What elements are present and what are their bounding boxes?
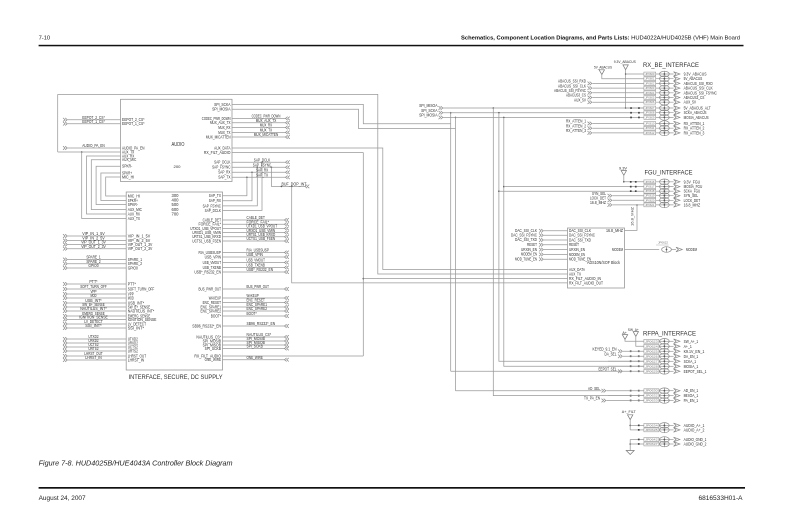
connector JP0627 SCKA_1 bbox=[644, 359, 697, 365]
ground symbol bbox=[626, 440, 644, 455]
input net label URXD2 bbox=[63, 338, 126, 345]
wire MIC_HI audio to main bbox=[106, 177, 127, 196]
connector JP0620 LOCK_DET bbox=[644, 198, 701, 204]
page header left: 7-10 bbox=[39, 36, 51, 42]
input net label PTT* bbox=[63, 279, 126, 286]
svg-text:MUX_MICATTEN: MUX_MICATTEN bbox=[206, 134, 231, 139]
input net label RX_ATTEN_3 bbox=[566, 128, 644, 135]
resistor pairs RFPA rows bbox=[630, 350, 640, 372]
svg-text:AUX_MIC: AUX_MIC bbox=[122, 157, 136, 162]
wire MODEM from ADSIC to connector bbox=[625, 249, 660, 251]
output net label SPI_SCKB bbox=[223, 344, 289, 351]
connector JP0601 5V_ABACUS bbox=[644, 76, 703, 82]
svg-text:SAP_DCLK: SAP_DCLK bbox=[205, 208, 222, 213]
svg-text:BUS_PWR_OUT: BUS_PWR_OUT bbox=[199, 286, 222, 291]
svg-text:TX_PA_EN: TX_PA_EN bbox=[584, 396, 600, 401]
output net label MUX_RX bbox=[232, 123, 290, 130]
input net label LV_DETECT bbox=[63, 319, 126, 326]
input net label LOCK_DET bbox=[590, 196, 644, 203]
connector JP0633 PA_EN_1 bbox=[644, 398, 699, 404]
svg-text:JP0619: JP0619 bbox=[645, 194, 655, 198]
connector JP0625 K9.1V_EN_1 bbox=[644, 349, 705, 355]
output net label RIA_USBSUSP bbox=[223, 248, 289, 255]
svg-text:7-10: 7-10 bbox=[39, 36, 51, 42]
main block internal bus numbers 300-700 bbox=[172, 193, 180, 217]
output net label ENC_RESET bbox=[223, 298, 289, 305]
wire 16.8_MHZ from FGU to ADSIC bbox=[625, 204, 638, 230]
svg-text:AUDIO_PA_EN: AUDIO_PA_EN bbox=[82, 143, 105, 148]
svg-text:JP0629: JP0629 bbox=[645, 369, 658, 373]
resistor squares audio A+/GND rows bbox=[638, 425, 640, 445]
svg-text:JP0602: JP0602 bbox=[645, 81, 655, 85]
connector JP0605 ABACUS3_CS bbox=[644, 95, 705, 101]
wire SCKA_1 row stub bbox=[608, 360, 644, 362]
connector JP0642 AUDIO_GND_1 bbox=[644, 437, 707, 443]
wire SPI_MISOA vertical to AD MISOA_1 row bbox=[493, 108, 644, 396]
section title RFPA_INTERFACE bbox=[643, 330, 696, 337]
output net label UCTS1_USB_FSEN bbox=[223, 236, 289, 243]
footer date bbox=[39, 495, 87, 502]
footer rule bbox=[39, 487, 745, 489]
output net label URTS1_USB_KRXD bbox=[223, 232, 289, 239]
svg-text:ADS10N/SOF Block: ADS10N/SOF Block bbox=[587, 260, 621, 265]
svg-text:EEPOT_1_CS*: EEPOT_1_CS* bbox=[122, 121, 145, 126]
wire SPI_MOSIA step-down from audio block bbox=[232, 109, 456, 128]
svg-text:USB*_RS232_EN: USB*_RS232_EN bbox=[247, 267, 274, 272]
svg-text:BOOT*: BOOT* bbox=[211, 313, 221, 318]
wire RX_FILT_AUDIO vertical bbox=[363, 153, 365, 357]
wire vertical bus to EEPOT_SEL_1 row bbox=[450, 124, 452, 371]
svg-text:RX_FILT_AUDIO_OUT: RX_FILT_AUDIO_OUT bbox=[569, 280, 603, 285]
input net label SPARE_2 bbox=[63, 259, 126, 266]
wire SAP_RX vertical to main block bbox=[223, 172, 253, 201]
svg-text:AUDIO_A+_2: AUDIO_A+_2 bbox=[684, 427, 705, 432]
connector JP0604 ABACUS_SSI_FSYNC bbox=[644, 90, 717, 96]
input net label UTXD2 bbox=[63, 334, 126, 341]
resistor pair on MOSIA_ABACUS row bbox=[630, 117, 640, 119]
svg-text:JP0610: JP0610 bbox=[645, 122, 655, 126]
output net label USB_TXENB bbox=[223, 263, 289, 270]
input net label URXIN_EN to ADSIC bbox=[521, 247, 568, 252]
svg-text:9.3V: 9.3V bbox=[619, 166, 627, 171]
input net label EEPOT_SEL bbox=[599, 367, 644, 374]
input net label AD_SEL bbox=[588, 386, 644, 393]
connector JP0621 16.8_MHZ bbox=[644, 202, 701, 208]
svg-text:AUX_5V: AUX_5V bbox=[574, 97, 586, 102]
page header title bbox=[461, 36, 740, 42]
input net label VPP bbox=[63, 289, 126, 296]
svg-text:JP0604: JP0604 bbox=[645, 91, 655, 95]
svg-text:MOSIA_ABACUS: MOSIA_ABACUS bbox=[684, 115, 709, 120]
svg-text:JP0632: JP0632 bbox=[645, 394, 658, 398]
svg-text:JP0605: JP0605 bbox=[645, 96, 655, 100]
vertical net name 16.8_MHZ bbox=[630, 206, 635, 226]
svg-text:JP0601: JP0601 bbox=[645, 77, 655, 81]
input net label EEPOT_2_CS* bbox=[63, 115, 121, 122]
input net label VIP_IN_1_5V bbox=[63, 231, 126, 238]
input net label ABACUS_SSI_RXD bbox=[558, 79, 644, 86]
connector JP0632 MISOA_1 bbox=[644, 393, 699, 399]
input net label VIP_IN_2_5V bbox=[63, 236, 126, 243]
svg-text:JP0612: JP0612 bbox=[645, 131, 655, 135]
svg-text:JP0625: JP0625 bbox=[645, 349, 658, 353]
wire SPKR- audio to main bbox=[96, 166, 126, 204]
output net label SAP_DCLK bbox=[232, 157, 290, 164]
output net label ONE_WIRE bbox=[223, 355, 289, 362]
input net label RX_ATTEN_2 bbox=[566, 123, 644, 130]
svg-text:SPI_SCKB: SPI_SCKB bbox=[247, 344, 264, 349]
svg-text:AUX_5V: AUX_5V bbox=[684, 100, 697, 105]
power symbol A+_FILT bbox=[622, 409, 644, 430]
output net label USB_VMOUT bbox=[223, 258, 289, 265]
output net label BUS_PWR_OUT bbox=[223, 284, 289, 291]
svg-text:SPI_MOSIA: SPI_MOSIA bbox=[419, 113, 438, 118]
wire MISOA_1 row stub bbox=[608, 395, 644, 397]
svg-text:UCTS1_USB_FSEN: UCTS1_USB_FSEN bbox=[247, 236, 276, 241]
wire vertical bus to AD_EN_1 row bbox=[455, 129, 457, 391]
input net label AUDIO_PA_EN bbox=[63, 143, 121, 150]
svg-text:GPIO0: GPIO0 bbox=[88, 263, 99, 268]
output net label CABLE_DET bbox=[223, 215, 289, 222]
svg-text:JP0637: JP0637 bbox=[645, 442, 658, 446]
audio block right pin names bbox=[202, 102, 231, 180]
input net label TX_PA_EN bbox=[584, 396, 644, 403]
wire SPI_MOSIA horizontal to RX_BE bbox=[443, 117, 644, 119]
svg-text:SSI_INT*: SSI_INT* bbox=[85, 323, 102, 328]
input net label NAUTILUS_INT* bbox=[63, 306, 126, 313]
svg-text:SAP_TX: SAP_TX bbox=[256, 173, 268, 178]
connector JP0612 RX_ATTEN_3 bbox=[644, 130, 705, 136]
svg-text:ONE_WIRE: ONE_WIRE bbox=[247, 355, 264, 360]
output net label FORCE_FAIL* bbox=[223, 219, 289, 226]
svg-text:UCTS1_USB_FSEN: UCTS1_USB_FSEN bbox=[192, 238, 221, 243]
svg-text:RX_ATTEN_3: RX_ATTEN_3 bbox=[566, 128, 587, 133]
svg-text:SB96_RS232*_EN: SB96_RS232*_EN bbox=[247, 321, 276, 326]
svg-text:JP0628: JP0628 bbox=[645, 364, 658, 368]
svg-text:16.8_MHZ: 16.8_MHZ bbox=[630, 206, 635, 226]
svg-text:EEPOT_SEL_1: EEPOT_SEL_1 bbox=[684, 369, 707, 374]
audio block name AUDIO bbox=[172, 142, 185, 148]
connector JP0634 AUDIO_A+_1 bbox=[644, 423, 705, 429]
input net label MODEM_EN to ADSIC bbox=[521, 252, 568, 257]
main block right pin names bbox=[190, 193, 221, 362]
wire SPKR+ audio to main bbox=[101, 173, 126, 201]
svg-text:VIP_OUT_2_3V: VIP_OUT_2_3V bbox=[128, 246, 153, 251]
svg-text:BOOT*: BOOT* bbox=[247, 311, 257, 316]
resistor pair on SCKA_ABACUS row bbox=[630, 112, 640, 114]
input net label IGNITION_SENSE bbox=[63, 315, 126, 322]
input net label VIP_OUT_2_3V bbox=[63, 244, 126, 251]
audio block left pin names bbox=[122, 117, 145, 179]
input net label SW_B+_SENSE bbox=[63, 302, 126, 309]
svg-text:JP0620: JP0620 bbox=[645, 198, 655, 202]
svg-text:JP0603: JP0603 bbox=[645, 86, 655, 90]
power symbol 5V_ABACUS bbox=[594, 64, 644, 78]
input net label KEYED_9.1_EN bbox=[593, 347, 644, 354]
output net label SB96_RS232*_EN bbox=[223, 321, 289, 328]
wire SPI_MOSIA vertical branch to FGU and RFPA bbox=[503, 117, 644, 366]
figure caption bbox=[39, 461, 233, 468]
output net label ENC_SPARE2 bbox=[223, 306, 289, 313]
wire SAP_TX vertical to main block bbox=[223, 177, 247, 196]
svg-text:A+_FILT: A+_FILT bbox=[622, 409, 637, 414]
connector JP0607 5V_ABACUS_ALT bbox=[644, 105, 711, 111]
input net label ABACUS3_CS bbox=[566, 93, 644, 100]
svg-text:EEPOT_1_CS*: EEPOT_1_CS* bbox=[82, 119, 105, 124]
input net label ABACUS_SSI_FSYNC bbox=[554, 88, 644, 95]
wire RX_FILT_AUDIO to main block pin bbox=[223, 355, 364, 357]
svg-text:JP0607: JP0607 bbox=[645, 106, 655, 110]
svg-text:JP0642: JP0642 bbox=[645, 438, 658, 442]
connector JP0630 AD_EN_1 bbox=[644, 388, 699, 394]
svg-text:JP0616: JP0616 bbox=[645, 180, 655, 184]
input net label RX_ATTEN_1 bbox=[566, 119, 644, 126]
connector JP0610 RX_ATTEN_1 bbox=[644, 121, 705, 127]
output net label MUX_AUX_TX bbox=[232, 118, 290, 125]
resistor pairs FGU rows bbox=[630, 181, 637, 192]
connector JP0611 RX_ATTEN_2 bbox=[644, 125, 705, 131]
section title RX_BE_INTERFACE bbox=[643, 62, 699, 69]
input net label RESET to ADSIC bbox=[527, 242, 568, 247]
svg-text:MODEM: MODEM bbox=[612, 247, 623, 252]
wire AUX_TX loop with branch bbox=[58, 94, 121, 152]
output net label BOOT* bbox=[223, 311, 289, 318]
input net label USB_INT* bbox=[63, 298, 126, 305]
wire SAP_DCLK vertical to main block bbox=[223, 162, 263, 210]
wire MOSIA_1 row stub bbox=[608, 365, 644, 367]
input net label EMERG_SENSE bbox=[63, 311, 126, 318]
ADSIC block right pin names bbox=[606, 228, 623, 252]
output net label SAP_TX bbox=[232, 173, 290, 180]
output net label SAP_RX bbox=[232, 168, 290, 175]
input net label SPARE_1 bbox=[63, 255, 126, 262]
svg-text:AD_SEL: AD_SEL bbox=[588, 386, 601, 391]
svg-text:6816533H01-A: 6816533H01-A bbox=[699, 495, 744, 502]
svg-text:RX_BE_INTERFACE: RX_BE_INTERFACE bbox=[643, 62, 699, 69]
wire SPI_SCKA horizontal to RX_BE bbox=[443, 112, 644, 114]
power symbol 9.3V_ABACUS bbox=[614, 59, 636, 109]
output net label CODEC_PWR_DOWN bbox=[232, 114, 290, 121]
connector JP0606 AUX_5V bbox=[644, 99, 696, 105]
input net label LHRST_IN bbox=[63, 355, 126, 362]
svg-text:JP0608: JP0608 bbox=[645, 111, 655, 115]
wire SPI_MISOA to vertical bus bbox=[443, 107, 644, 109]
input net label 16.8_MHZ bbox=[590, 200, 644, 207]
svg-text:16.8_MHZ: 16.8_MHZ bbox=[606, 228, 623, 233]
input net label SSI_INT* bbox=[63, 323, 126, 330]
resistor pairs AD rows bbox=[630, 390, 640, 402]
svg-text:JP0633: JP0633 bbox=[645, 399, 658, 403]
svg-text:200: 200 bbox=[174, 164, 182, 169]
output net label WAKEUP bbox=[223, 293, 289, 300]
svg-text:EEPOT_SEL: EEPOT_SEL bbox=[599, 367, 617, 372]
ADSIC block left pin names bbox=[569, 228, 603, 285]
net label BUF_DOP_INT with wire bbox=[271, 167, 310, 189]
output net label NAUTILUS_CS* bbox=[223, 332, 289, 339]
svg-text:JP0627: JP0627 bbox=[645, 359, 658, 363]
wire SPI_SCKA vertical branch to FGU and RFPA bbox=[498, 113, 644, 362]
connector JP0635 AUDIO_A+_2 bbox=[644, 427, 705, 433]
svg-text:VIP_OUT_2_3V: VIP_OUT_2_3V bbox=[81, 244, 106, 249]
connector JP0624 A+_1 bbox=[644, 344, 693, 350]
connector JP0602 ABACUS_SSI_RXD bbox=[644, 81, 713, 87]
input net label VIP_OUT_1_3V bbox=[63, 240, 126, 247]
svg-text:JP0606: JP0606 bbox=[645, 100, 655, 104]
svg-text:MODEM: MODEM bbox=[686, 247, 697, 252]
connector JP0618 SCKA_FGU bbox=[644, 188, 700, 194]
output net label UTXD1_USB_VPOUT bbox=[223, 224, 289, 231]
output net label USB*_RS232_EN bbox=[223, 267, 289, 274]
footer part number bbox=[699, 495, 744, 502]
svg-text:LHRST_IN: LHRST_IN bbox=[128, 357, 144, 362]
output net label SAP_FSYNC bbox=[232, 163, 290, 170]
svg-text:AUDIO: AUDIO bbox=[172, 142, 185, 148]
connector JP0609 MOSIA_ABACUS bbox=[644, 115, 709, 121]
connector JP0608 SCKA_ABACUS bbox=[644, 110, 707, 116]
svg-text:PA_EN_1: PA_EN_1 bbox=[684, 398, 699, 403]
svg-text:LHRST_IN: LHRST_IN bbox=[85, 355, 101, 360]
input net label EEPOT_1_CS* bbox=[63, 119, 121, 126]
svg-text:SPKR-: SPKR- bbox=[122, 164, 133, 169]
output net label SPI_MISOB bbox=[223, 340, 289, 347]
main interface block outline bbox=[126, 192, 222, 370]
svg-text:700: 700 bbox=[172, 211, 180, 216]
svg-text:BUS_PWR_OUT: BUS_PWR_OUT bbox=[247, 284, 270, 289]
input net label GPIO0 bbox=[63, 263, 126, 270]
svg-text:JP0618: JP0618 bbox=[645, 189, 655, 193]
svg-text:MIC_HI: MIC_HI bbox=[122, 174, 134, 179]
connector JP0622 MODEM bbox=[656, 241, 697, 253]
svg-text:Figure 7-8. HUD4025B/HUE4043A: Figure 7-8. HUD4025B/HUE4043A Controller… bbox=[39, 461, 233, 468]
connector JP0628 MOSIA_1 bbox=[644, 364, 699, 370]
svg-text:SPI_MOSIA: SPI_MOSIA bbox=[212, 107, 231, 112]
svg-text:SPI_SCKB: SPI_SCKB bbox=[205, 346, 222, 351]
wire SAP_FSYNC vertical to main block bbox=[223, 167, 258, 206]
input net label DAC_SSI_TXD to ADSIC bbox=[515, 237, 568, 242]
audio block ref 200 bbox=[174, 164, 182, 169]
svg-text:JP0611: JP0611 bbox=[645, 126, 655, 130]
svg-text:SSI_INT*: SSI_INT* bbox=[128, 325, 145, 330]
input net label DA_SEL bbox=[605, 352, 644, 359]
svg-text:JP0617: JP0617 bbox=[645, 185, 655, 189]
svg-text:AUDIO_GND_2: AUDIO_GND_2 bbox=[684, 442, 707, 447]
connector JP0617 MOSIA_FGU bbox=[644, 184, 702, 190]
connector JP0600 9.3V_ABACUS bbox=[644, 71, 707, 77]
input net label SYN_SEL bbox=[592, 191, 644, 198]
svg-text:August 24, 2007: August 24, 2007 bbox=[39, 495, 87, 502]
svg-text:MOD_TUNE_EN: MOD_TUNE_EN bbox=[515, 256, 537, 261]
input net label DAC_SSI_CLK to ADSIC bbox=[515, 228, 568, 233]
output net label ENC_SPARE1 bbox=[223, 302, 289, 309]
svg-text:JP0609: JP0609 bbox=[645, 115, 655, 119]
svg-text:SAP_TX: SAP_TX bbox=[218, 175, 230, 180]
svg-text:16.8_MHZ: 16.8_MHZ bbox=[684, 202, 701, 207]
svg-text:Schematics, Component Location: Schematics, Component Location Diagrams,… bbox=[461, 36, 740, 42]
input net label MOD_TUNE_EN to ADSIC bbox=[515, 256, 568, 261]
net label SPI_MOSIA bbox=[419, 113, 443, 120]
main block caption INTERFACE, SECURE, DC SUPPLY bbox=[129, 374, 224, 381]
svg-text:9.3V_ABACUS: 9.3V_ABACUS bbox=[614, 59, 636, 64]
svg-text:JP0621: JP0621 bbox=[645, 203, 655, 207]
wire AUX_TX top run to ADSIC block bbox=[58, 94, 568, 274]
wire AUX_DATA from audio block to ADSIC bbox=[232, 148, 568, 270]
svg-text:RX_ATTEN_3: RX_ATTEN_3 bbox=[684, 130, 705, 135]
svg-text:JP0623: JP0623 bbox=[645, 339, 658, 343]
input net label UCTS2 bbox=[63, 342, 126, 349]
svg-text:JP0624: JP0624 bbox=[645, 344, 658, 348]
svg-text:DA_SEL: DA_SEL bbox=[605, 352, 618, 357]
wire AUX_TX vertical to main block bbox=[82, 152, 127, 219]
svg-text:JP0626: JP0626 bbox=[645, 354, 658, 358]
wire 9.3V_ABACUS row bbox=[626, 73, 644, 75]
wire BUF net vertical to ADSIC RX_FILT_AUDIO_OUT bbox=[292, 186, 568, 283]
power symbol 9.3V FGU bbox=[619, 166, 644, 183]
svg-text:FGU_INTERFACE: FGU_INTERFACE bbox=[645, 170, 693, 177]
svg-text:AUX_TX: AUX_TX bbox=[128, 216, 140, 221]
svg-text:5V_ABACUS: 5V_ABACUS bbox=[594, 64, 612, 69]
ADSIC block outline bbox=[568, 228, 625, 288]
connector JP0619 SYN_SEL bbox=[644, 193, 699, 199]
connector JP0637 AUDIO_GND_2 bbox=[644, 441, 707, 447]
svg-text:RFPA_INTERFACE: RFPA_INTERFACE bbox=[643, 330, 696, 337]
svg-text:USB*_RS232_EN: USB*_RS232_EN bbox=[194, 269, 221, 274]
input net label LHRST_OUT bbox=[63, 351, 126, 358]
main block left pin names bbox=[128, 193, 157, 362]
svg-text:JP0635: JP0635 bbox=[645, 428, 658, 432]
audio ASIC block U0200 outline bbox=[121, 99, 233, 181]
svg-text:GPIO0: GPIO0 bbox=[128, 265, 139, 270]
svg-text:RX_FILT_AUDIO: RX_FILT_AUDIO bbox=[204, 150, 231, 155]
svg-text:BUF_DOP_INT: BUF_DOP_INT bbox=[282, 181, 307, 186]
input net label SOFT_TURN_OFF bbox=[63, 284, 126, 291]
output net label URXD1_USB_VMIN bbox=[223, 228, 289, 235]
connector JP0616 9.3V_FGU bbox=[644, 179, 700, 185]
connector JP0626 DA_EN_1 bbox=[644, 354, 699, 360]
wire SPI_SCKA step-down from audio block bbox=[232, 104, 452, 123]
output net label USB_VPIN bbox=[223, 252, 289, 259]
wire AUX_RX audio to main bbox=[87, 156, 127, 214]
section title FGU_INTERFACE bbox=[645, 170, 693, 177]
input net label MOD bbox=[63, 293, 126, 300]
net label SPI_SCKA bbox=[421, 108, 443, 115]
connector JP0629 EEPOT_SEL_1 bbox=[644, 369, 707, 375]
svg-text:USB_VPIN: USB_VPIN bbox=[205, 254, 221, 259]
wire RX_FILT_AUDIO_IN branch to ADSIC bbox=[363, 278, 567, 280]
output net label MUX_MICATTEN bbox=[232, 132, 290, 139]
svg-text:INTERFACE, SECURE, DC SUPPLY: INTERFACE, SECURE, DC SUPPLY bbox=[129, 374, 224, 381]
wire AUX_MIC audio to main bbox=[91, 160, 126, 210]
output net label SPI_MOSIB bbox=[223, 336, 289, 343]
input net label ABACUS_SSI_CLK bbox=[558, 83, 644, 90]
svg-text:USB_VPIN: USB_VPIN bbox=[247, 252, 263, 257]
ADSIC block internal name bbox=[587, 260, 621, 265]
svg-text:16.8_MHZ: 16.8_MHZ bbox=[590, 200, 606, 205]
power symbol SW_A+ RFPA bbox=[628, 327, 644, 346]
input net label AUX_5V bbox=[574, 97, 644, 104]
wire EEPOT_SEL_1 long wire from vertical bbox=[451, 370, 623, 372]
svg-text:JP0630: JP0630 bbox=[645, 389, 658, 393]
output net label MUX_TX bbox=[232, 128, 290, 135]
svg-text:MUX_MICATTEN: MUX_MICATTEN bbox=[254, 132, 279, 137]
svg-text:JP0622: JP0622 bbox=[658, 241, 668, 245]
header rule bbox=[39, 45, 744, 47]
input net label URTS2 bbox=[63, 346, 126, 353]
connector JP0603 ABACUS_SSI_CLK bbox=[644, 85, 713, 91]
net label SPI_MISOA bbox=[419, 103, 443, 110]
connector JP0623 SW_A+_1 bbox=[644, 339, 699, 345]
svg-text:JP0634: JP0634 bbox=[645, 423, 658, 427]
power symbol A+ RFPA bbox=[622, 330, 644, 341]
